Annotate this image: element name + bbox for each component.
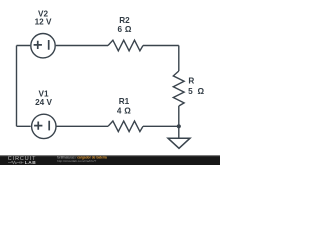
svg-text:R: R xyxy=(188,77,194,86)
svg-text:R1: R1 xyxy=(119,97,130,106)
svg-text:http://circuitlab.com/c/a/irfc: http://circuitlab.com/c/a/irfc/? xyxy=(57,159,96,163)
svg-text:6 Ω: 6 Ω xyxy=(117,25,131,34)
svg-text:24 V: 24 V xyxy=(35,98,52,107)
svg-text:R2: R2 xyxy=(119,16,130,25)
svg-text:4 Ω: 4 Ω xyxy=(117,107,131,116)
svg-text:LAB: LAB xyxy=(25,160,36,165)
svg-text:5 Ω: 5 Ω xyxy=(188,87,205,96)
svg-text:12 V: 12 V xyxy=(35,18,52,27)
